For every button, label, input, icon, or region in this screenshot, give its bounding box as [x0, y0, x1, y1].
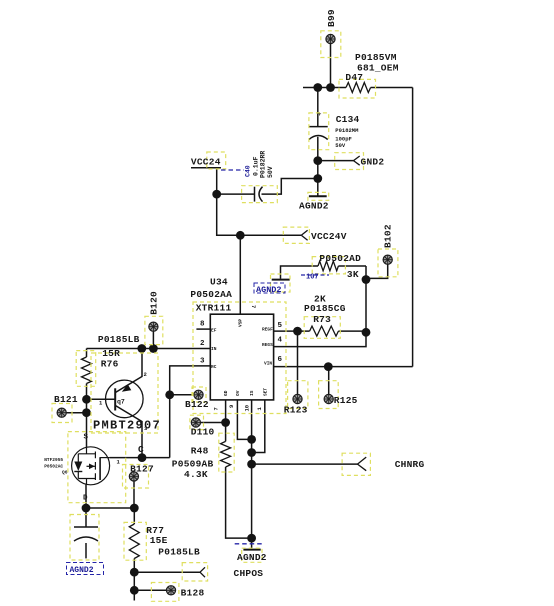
wire VCC24 down to VCC24V row: [217, 194, 302, 235]
wire right vertical bus: [412, 88, 414, 367]
ground bar at P0502AD left: [272, 279, 290, 281]
svg-text:R73: R73: [313, 314, 331, 325]
svg-text:107: 107: [306, 274, 319, 282]
wire IC bottom pin stub A: [225, 400, 227, 442]
svg-text:P0185CG: P0185CG: [304, 303, 346, 314]
svg-text:P0502AC: P0502AC: [44, 464, 63, 470]
svg-text:6: 6: [278, 356, 283, 364]
highlight box R77: [124, 522, 146, 560]
wire CHNRG net: [252, 463, 358, 465]
pin circle R125: [324, 394, 333, 403]
svg-text:EF: EF: [211, 328, 217, 334]
highlight box R125: [319, 381, 339, 409]
wire MOSFET drain down: [85, 485, 87, 527]
svg-text:P0185LB: P0185LB: [98, 334, 140, 345]
wire top net left segment: [303, 87, 346, 89]
svg-text:50V: 50V: [267, 166, 274, 178]
svg-text:C134: C134: [336, 114, 360, 125]
svg-text:REGF: REGF: [262, 327, 273, 333]
wire D110 lead: [200, 422, 225, 424]
wire Q7 collector down: [115, 406, 142, 458]
wire drain cap lower lead: [85, 543, 87, 558]
svg-text:D110: D110: [191, 427, 215, 438]
highlight box ground bar P0502AD: [271, 274, 291, 292]
svg-text:P0182RR: P0182RR: [260, 151, 267, 178]
net connector bottom-left arrow: [200, 567, 205, 577]
wire IC bottom pin stub D: [252, 400, 265, 453]
pin circle B128: [166, 586, 175, 595]
wire pin5 junction down to R123: [297, 331, 299, 394]
highlight box AGND2 under C134: [308, 192, 329, 200]
svg-text:R48: R48: [191, 446, 209, 457]
highlight box drain cap: [70, 515, 99, 561]
svg-text:VSP: VSP: [238, 319, 244, 327]
svg-text:7: 7: [250, 305, 257, 308]
wire R76 bottom to MOSFET source: [86, 384, 88, 448]
svg-text:0.1uF: 0.1uF: [253, 156, 260, 176]
highlight box VCC24: [207, 152, 226, 169]
wire B122 lead: [170, 394, 194, 396]
net connector CHNRG arrow: [358, 457, 367, 471]
wire VCC24 label underline: [191, 167, 221, 169]
highlight box B102: [378, 249, 398, 277]
highlight box B127: [123, 465, 149, 489]
svg-text:AGND2: AGND2: [237, 552, 267, 563]
svg-text:2: 2: [200, 340, 205, 348]
highlight box mosfet Q6: [68, 432, 126, 503]
svg-text:P0502AD: P0502AD: [319, 253, 361, 264]
blue dashed box AGND2 bottom left: [67, 563, 104, 575]
highlight box U34 big: [193, 302, 286, 414]
svg-text:GD: GD: [223, 390, 229, 396]
wire B127 drop: [133, 481, 135, 508]
wire VCC24 drop: [216, 168, 218, 194]
svg-text:PMBT2907: PMBT2907: [93, 419, 161, 433]
wire P0502AD left lead to ground stub: [281, 266, 319, 279]
svg-text:VCC24V: VCC24V: [311, 231, 347, 242]
pin circle R123: [293, 394, 302, 403]
svg-text:R123: R123: [284, 405, 308, 416]
svg-text:D: D: [83, 495, 88, 503]
svg-text:R125: R125: [334, 395, 358, 406]
svg-text:VIN: VIN: [264, 361, 272, 367]
resistor R77 15E: [129, 524, 139, 558]
wire to C40 left plate: [217, 193, 255, 195]
svg-text:RC: RC: [211, 364, 217, 370]
highlight box bottom-left arrow: [182, 563, 207, 581]
highlight box C40: [242, 186, 278, 203]
ic U34 XTR111 body: [210, 314, 273, 400]
highlight box R76: [76, 351, 96, 387]
pin circle B122: [194, 390, 203, 399]
svg-text:Q6: Q6: [62, 470, 68, 476]
mosfet Q6 NTF2955: [72, 447, 110, 485]
capacitor C40 0.1uF: [255, 187, 263, 202]
wire B120 lead: [152, 331, 154, 349]
wire C134 bottom lead to ground: [317, 137, 319, 196]
highlight box B99: [321, 31, 341, 58]
svg-text:P0185LB: P0185LB: [158, 547, 200, 558]
svg-text:50V: 50V: [335, 142, 346, 149]
svg-text:D47: D47: [345, 72, 363, 83]
svg-text:CHNRG: CHNRG: [395, 459, 425, 470]
wire IC pin6 to right bus: [274, 366, 413, 368]
svg-text:B128: B128: [181, 588, 205, 599]
svg-text:NTF2955: NTF2955: [44, 457, 63, 463]
svg-text:10: 10: [244, 405, 251, 412]
svg-text:15E: 15E: [150, 535, 168, 546]
wire Q7 emitter up: [115, 349, 142, 393]
svg-text:OV: OV: [235, 390, 241, 396]
wire R73 right lead: [338, 330, 366, 332]
highlight box B122: [192, 387, 206, 402]
svg-text:B99: B99: [326, 9, 337, 27]
resistor D47: [346, 83, 371, 93]
svg-text:P0509AB: P0509AB: [172, 458, 214, 469]
highlight box R73: [304, 317, 340, 339]
wire R76 top corner: [86, 349, 88, 358]
wire C node up to IC pin3: [170, 366, 211, 458]
svg-text:B102: B102: [383, 224, 394, 248]
svg-text:B121: B121: [54, 394, 78, 405]
capacitor C at MOSFET drain: [74, 527, 98, 541]
pin circle D110: [191, 418, 200, 427]
wire IC top pin 7: [239, 235, 241, 314]
wire B128 lead: [134, 589, 167, 591]
svg-text:S: S: [84, 434, 89, 442]
wire to bottom-left connector: [134, 571, 200, 573]
highlight box C134: [309, 113, 329, 150]
svg-text:2: 2: [144, 371, 147, 378]
ground AGND2 bar under C134: [309, 195, 327, 197]
wire R73 left lead and IC pin5: [274, 330, 310, 332]
svg-text:4.3K: 4.3K: [184, 469, 208, 480]
svg-text:CHPOS: CHPOS: [234, 568, 264, 579]
svg-text:XTR111: XTR111: [196, 302, 232, 313]
wire to GND2 connector: [318, 160, 354, 162]
highlight box AGND2 CHPOS: [242, 548, 262, 562]
capacitor C134: [309, 127, 328, 140]
svg-text:C: C: [138, 444, 144, 455]
svg-text:REGS: REGS: [262, 342, 273, 348]
svg-text:P0502AA: P0502AA: [190, 289, 232, 300]
wire C40 right lead: [262, 179, 318, 195]
pin circle B120: [149, 322, 158, 331]
svg-text:P0182MM: P0182MM: [335, 127, 359, 134]
wire IC bottom pin stub B: [237, 400, 251, 440]
highlight box VCC24V: [283, 227, 309, 243]
wire AGND2 stub bottom middle: [251, 538, 253, 549]
svg-text:1: 1: [117, 459, 121, 466]
svg-text:SET: SET: [263, 388, 269, 396]
resistor R76 15R: [82, 357, 92, 383]
pin circle B99: [326, 34, 335, 43]
resistor R73 2K: [310, 326, 339, 336]
svg-text:R76: R76: [101, 358, 119, 369]
svg-text:B122: B122: [185, 399, 209, 410]
transistor Q7 PMBT2907: [106, 380, 144, 418]
svg-text:AGND2: AGND2: [299, 200, 329, 211]
wire C node row: [110, 457, 170, 459]
svg-text:4: 4: [278, 337, 283, 345]
wire D47 right lead to corner: [371, 87, 413, 89]
ground AGND2 bar bottom middle: [243, 549, 260, 551]
svg-text:+: +: [318, 111, 322, 118]
wire Q7 base: [87, 398, 116, 400]
highlight box P0502AD: [312, 257, 345, 274]
wire P0502AD right lead: [338, 265, 366, 267]
wire B102 lead: [366, 264, 388, 278]
svg-text:3K: 3K: [347, 269, 359, 280]
svg-text:U34: U34: [210, 277, 228, 288]
wire IC bottom pin stub C down: [251, 400, 253, 538]
highlight box GND2: [335, 153, 364, 170]
svg-text:AGND2: AGND2: [256, 285, 282, 295]
wire R77 top lead: [133, 508, 135, 524]
resistor P0502AD 3K: [318, 261, 338, 271]
net connector VCC24V arrow: [301, 230, 307, 240]
blue dashed net C40: [221, 169, 244, 171]
blue dashed box AGND2 left: [254, 283, 285, 293]
svg-text:C40: C40: [245, 165, 252, 177]
svg-text:IS: IS: [249, 390, 255, 396]
wire R125 stub: [328, 367, 330, 395]
net connector GND2 arrow: [354, 156, 360, 165]
highlight box R123: [288, 381, 308, 409]
resistor R48 4.3K: [221, 441, 231, 467]
svg-text:3: 3: [200, 358, 205, 366]
wire C134 top lead: [317, 88, 319, 127]
highlight box B121: [52, 404, 72, 423]
svg-text:VCC24: VCC24: [191, 157, 221, 168]
blue dashed line above AGND2 bottom middle: [235, 543, 262, 545]
wire IC pin2 row: [87, 348, 211, 350]
highlight box D110: [190, 415, 204, 429]
svg-text:1: 1: [99, 400, 103, 407]
highlight box D47: [339, 79, 376, 98]
blue dashed fragment near P0502AD: [301, 274, 329, 276]
pin circle B127: [129, 472, 138, 481]
wire B121 lead: [66, 412, 87, 414]
svg-text:7: 7: [213, 407, 220, 410]
wire vertical net to IC pin4: [274, 266, 366, 347]
wire drain row to R77: [86, 507, 134, 509]
svg-text:q7: q7: [117, 399, 125, 406]
wire B99 stub: [330, 44, 332, 88]
highlight box B128: [151, 583, 179, 602]
svg-text:P0185VM: P0185VM: [355, 52, 397, 63]
svg-text:B127: B127: [130, 464, 154, 475]
wire R77 bottom leads: [133, 559, 135, 601]
svg-text:9: 9: [228, 405, 235, 408]
svg-text:8: 8: [200, 321, 205, 329]
highlight box CHNRG arrow: [342, 453, 370, 475]
svg-text:5: 5: [278, 322, 283, 330]
pin circle B121: [57, 408, 66, 417]
wire R48 bottom lead: [226, 467, 252, 538]
svg-text:AGND2: AGND2: [70, 566, 94, 575]
wire IC pin8 stub: [196, 328, 210, 330]
svg-text:GND2: GND2: [361, 157, 385, 168]
highlight box R48: [219, 433, 234, 472]
highlight box Q7: [91, 353, 158, 433]
svg-text:IN: IN: [211, 346, 217, 352]
svg-text:1: 1: [256, 407, 263, 411]
pin circle B102: [383, 255, 392, 264]
highlight box B120: [145, 316, 163, 344]
svg-text:B120: B120: [149, 291, 160, 315]
